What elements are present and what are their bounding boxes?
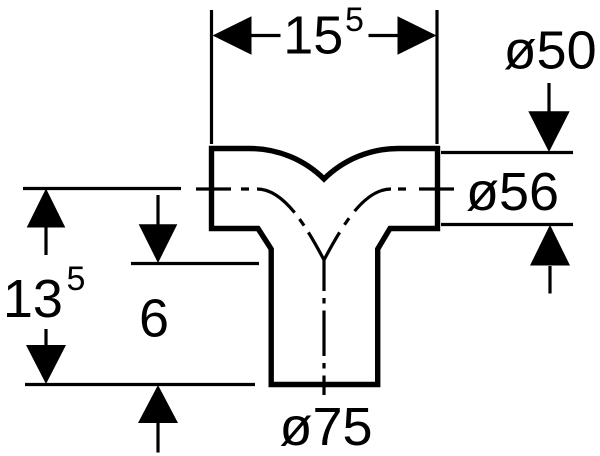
svg-text:ø50: ø50 [504,21,597,81]
svg-text:15: 15 [283,5,343,65]
svg-text:5: 5 [67,260,86,298]
svg-text:5: 5 [345,1,364,39]
svg-text:ø75: ø75 [279,397,372,456]
svg-text:6: 6 [139,289,169,349]
svg-text:ø56: ø56 [466,162,559,222]
svg-text:13: 13 [3,269,63,329]
